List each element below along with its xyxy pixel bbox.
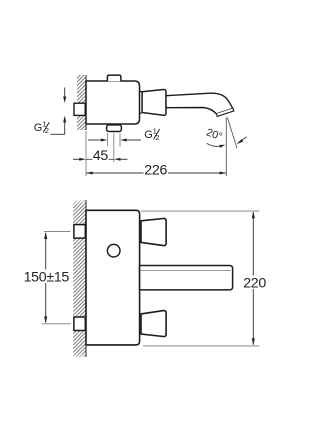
dim 45: outside arrow right bbox=[114, 158, 128, 161]
spout neck bottom line bbox=[140, 113, 143, 114]
inlet square bottom (bottom view) bbox=[74, 317, 85, 331]
extension line: bottom port right bbox=[119, 133, 121, 147]
extension line 150 bottom bbox=[42, 323, 71, 325]
top handle (bottom view) bbox=[141, 218, 166, 245]
20deg: arc arrow pointing at vertical line bbox=[207, 143, 226, 148]
dim 220: vertical line with outward arrows bbox=[252, 211, 255, 345]
dim 150±15: vertical line with outward arrows bbox=[44, 232, 47, 323]
svg-text:45: 45 bbox=[93, 148, 109, 164]
dim 226: text bbox=[144, 164, 169, 176]
bottom cap (G1/2 shower outlet) bbox=[107, 125, 122, 132]
bottom port dim arrow left bbox=[88, 139, 107, 142]
spout tube (top view) bbox=[166, 93, 233, 114]
svg-text:2: 2 bbox=[45, 126, 49, 135]
spout cone (top view) bbox=[142, 89, 166, 115]
top cap (cartridge cover) bbox=[107, 75, 121, 81]
extension line 150 top bbox=[44, 231, 71, 233]
extension line 220 top bbox=[141, 210, 259, 212]
svg-text:226: 226 bbox=[144, 163, 167, 179]
wall face line (top view) bbox=[85, 75, 87, 130]
extension line: wall face (for 45 and 226 dims) bbox=[85, 131, 87, 176]
svg-text:2: 2 bbox=[155, 133, 159, 142]
extension line 220 bottom bbox=[143, 345, 259, 347]
20deg: vertical reference line from spout tip (226 extension) bbox=[225, 117, 227, 176]
svg-text:G: G bbox=[144, 129, 153, 141]
dim 45: line bbox=[86, 158, 114, 160]
dim 226: line with inside arrows bbox=[86, 172, 226, 175]
spout (bottom view) bbox=[140, 266, 233, 290]
G1/2 dim arrow below inlet + leader to label bbox=[51, 116, 67, 135]
svg-text:220: 220 bbox=[243, 275, 266, 291]
20deg: angled reference line bbox=[227, 118, 237, 149]
svg-text:G: G bbox=[34, 122, 43, 134]
aerator lip at spout mouth bbox=[216, 108, 234, 116]
bottom port dim arrow right + leader to label bbox=[120, 139, 141, 142]
screw circle on body bbox=[107, 244, 120, 257]
extension line: bottom port left bbox=[107, 133, 109, 147]
wall hatch (bottom view) bbox=[73, 200, 86, 357]
svg-text:150±15: 150±15 bbox=[24, 270, 70, 286]
faucet body (top view) bbox=[86, 81, 140, 124]
wall inlet square (top view) bbox=[74, 103, 85, 115]
faucet body (bottom view) bbox=[86, 210, 140, 345]
dim 220: text bbox=[242, 276, 267, 290]
wall hatch (top view) bbox=[77, 75, 86, 130]
dim 45: outside arrow left bbox=[73, 158, 86, 161]
inlet square top (bottom view) bbox=[74, 225, 85, 239]
label G1/2 (wall inlet) bbox=[34, 120, 49, 136]
wall face line (bottom view) bbox=[85, 200, 87, 357]
dim 150±15: text bbox=[22, 270, 71, 284]
dim 45: text bbox=[92, 149, 108, 161]
label G1/2 (shower outlet) bbox=[144, 126, 159, 142]
G1/2 dim arrow above inlet (top view) bbox=[63, 88, 66, 104]
bottom handle (bottom view) bbox=[141, 311, 166, 337]
centre line of bottom port (45 dim reference) bbox=[113, 133, 115, 162]
spout seam line bbox=[141, 270, 232, 272]
20deg: arrow pointing at angled line bbox=[237, 137, 247, 145]
spout neck top line bbox=[140, 91, 143, 92]
